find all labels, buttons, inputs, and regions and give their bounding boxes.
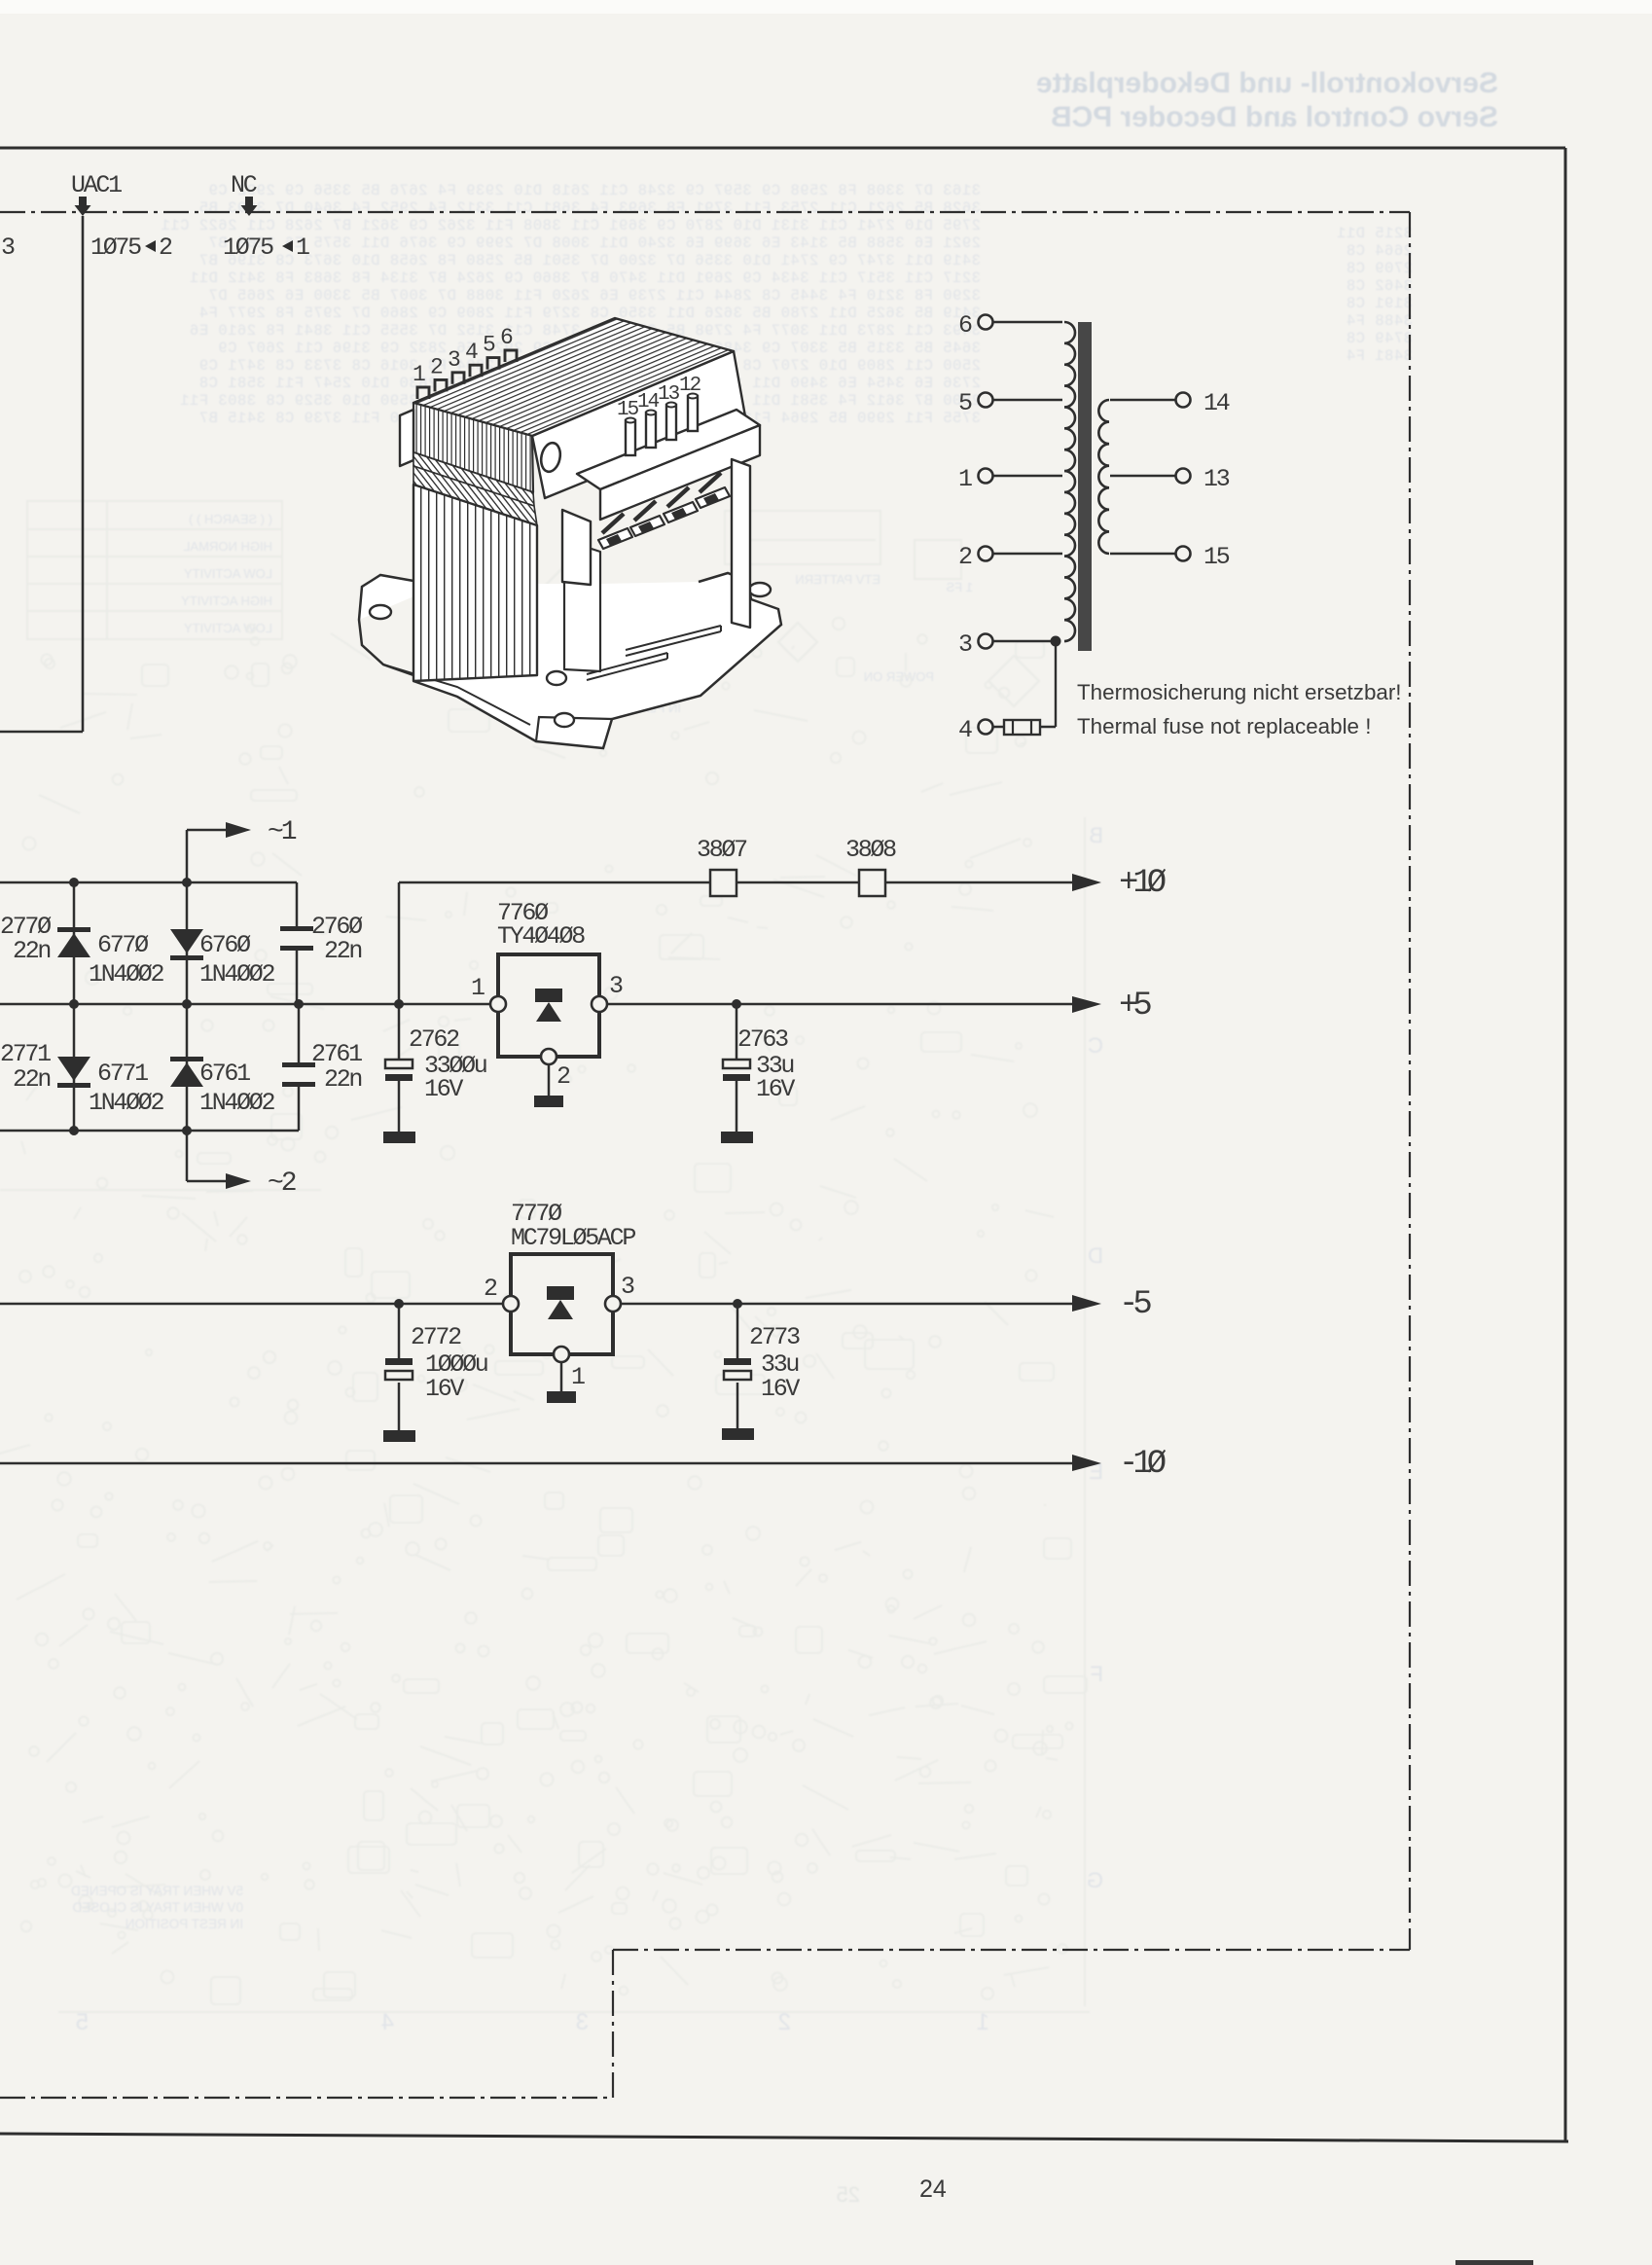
svg-text:~2: ~2 <box>268 1168 296 1199</box>
svg-text:3749 C8: 3749 C8 <box>1346 330 1413 347</box>
svg-text:1N4ØØ2: 1N4ØØ2 <box>199 960 275 989</box>
bracket foot holes <box>547 671 566 685</box>
svg-text:Servo Control and Decoder PCB: Servo Control and Decoder PCB <box>1051 101 1498 133</box>
primary pin 6 <box>979 315 993 330</box>
svg-text:2: 2 <box>159 234 172 262</box>
svg-text:1: 1 <box>413 362 425 387</box>
ghost mirrored test-pattern blocks <box>539 511 1039 706</box>
winding stack front face <box>413 485 537 681</box>
svg-text:( ( SEARCH ) ): ( ( SEARCH ) ) <box>189 512 272 526</box>
AC rail bottom <box>0 1130 299 1132</box>
wire <box>1110 475 1175 477</box>
primary pin 2 <box>979 547 993 561</box>
svg-text:-1Ø: -1Ø <box>1119 1446 1167 1483</box>
capacitor 2772 <box>398 1304 401 1358</box>
secondary winding <box>1098 400 1109 554</box>
svg-text:6771: 6771 <box>97 1060 148 1088</box>
svg-text:6761: 6761 <box>199 1060 250 1088</box>
svg-text:1: 1 <box>958 465 972 493</box>
svg-text:3290 F8 3210 F4 3445 C8 284: 3290 F8 3210 F4 3445 C8 2844 C11 2739 E6… <box>208 287 981 305</box>
ground pin1 <box>560 1362 563 1391</box>
svg-text:2: 2 <box>958 543 972 571</box>
svg-text:1N4ØØ2: 1N4ØØ2 <box>89 1089 164 1117</box>
svg-text:3419 B5 3625 D11 2780 B5 36: 3419 B5 3625 D11 2780 B5 3626 D11 3350 C… <box>198 305 981 322</box>
wire tap down <box>1055 641 1057 727</box>
svg-text:5V WHEN TRAY IS OPENED: 5V WHEN TRAY IS OPENED <box>71 1884 243 1898</box>
diode 6761 <box>186 1004 189 1131</box>
wire <box>993 475 1062 477</box>
svg-text:3163 D7 3308 F8 2598 C9 359: 3163 D7 3308 F8 2598 C9 3597 C9 3248 C11… <box>208 182 981 199</box>
wire <box>1110 553 1175 555</box>
tap junction <box>1051 636 1061 647</box>
svg-text:676Ø: 676Ø <box>199 931 251 959</box>
junction dots top rail <box>69 878 79 887</box>
svg-text:2795 D10 2741 C11 3131 D10: 2795 D10 2741 C11 3131 D10 2870 C9 3691 … <box>161 217 981 234</box>
svg-text:UAC1: UAC1 <box>71 171 122 199</box>
svg-text:16V: 16V <box>756 1075 795 1103</box>
secondary pin 13 <box>1176 469 1191 484</box>
svg-text:2: 2 <box>484 1275 497 1303</box>
svg-text:3: 3 <box>576 2009 589 2035</box>
svg-text:ETV PATTERN: ETV PATTERN <box>795 572 880 587</box>
pin 12 <box>688 396 698 431</box>
svg-text:POWER ON: POWER ON <box>864 669 934 684</box>
svg-text:+1Ø: +1Ø <box>1119 865 1167 902</box>
svg-text:NC: NC <box>231 171 257 199</box>
pin 14 <box>646 413 656 448</box>
secondary pin 14 <box>1176 393 1191 408</box>
-5 rail <box>0 1303 503 1306</box>
svg-text:15: 15 <box>617 399 639 421</box>
svg-text:3: 3 <box>958 630 972 659</box>
branch ~2 <box>186 1131 189 1181</box>
svg-text:F: F <box>1091 1662 1103 1686</box>
ghost mirrored PCB copper pattern <box>0 618 1087 2004</box>
svg-text:IN REST POSITION: IN REST POSITION <box>126 1917 243 1931</box>
svg-text:3481 F4: 3481 F4 <box>1346 347 1413 365</box>
svg-text:14: 14 <box>1203 389 1230 417</box>
svg-text:6: 6 <box>500 325 513 350</box>
bracket hole right <box>749 583 771 596</box>
svg-text:1: 1 <box>471 974 485 1002</box>
arrow +10 <box>1072 874 1101 891</box>
clamp screw rods <box>626 626 721 656</box>
DC rail (+) <box>0 1003 490 1006</box>
-10 rail <box>0 1462 1072 1465</box>
svg-text:3191 C8: 3191 C8 <box>1346 295 1413 312</box>
ground 2762 <box>383 1132 415 1143</box>
svg-text:Thermal fuse not replaceable !: Thermal fuse not replaceable ! <box>1077 714 1371 738</box>
page frame solid border <box>0 147 1565 150</box>
svg-text:25: 25 <box>837 2182 860 2207</box>
svg-text:+5: +5 <box>1119 988 1151 1025</box>
thermal fuse <box>1004 720 1040 735</box>
svg-text:2: 2 <box>557 1062 570 1091</box>
svg-text:22n: 22n <box>13 937 50 965</box>
svg-text:22n: 22n <box>324 937 361 965</box>
pin lug 3 <box>452 373 464 384</box>
svg-text:3462 C8: 3462 C8 <box>1346 277 1413 295</box>
diode 6771 <box>73 1004 76 1131</box>
arrow +5 <box>1072 996 1101 1013</box>
svg-text:16V: 16V <box>761 1375 800 1403</box>
svg-text:G: G <box>1087 1868 1103 1892</box>
lamination zig-zag edge bands <box>413 452 534 506</box>
bracket hole left <box>370 605 391 619</box>
svg-text:677Ø: 677Ø <box>97 931 149 959</box>
svg-text:3628 B5 2621 C11 2753 F11 3: 3628 B5 2621 C11 2753 F11 3791 F8 3693 F… <box>198 199 981 217</box>
svg-text:1: 1 <box>977 2009 989 2035</box>
svg-text:2762: 2762 <box>409 1025 459 1054</box>
pin 13 <box>666 405 676 440</box>
svg-text:C: C <box>1088 1033 1103 1058</box>
svg-text:4: 4 <box>958 716 972 744</box>
svg-text:15: 15 <box>1203 543 1230 571</box>
svg-text:3: 3 <box>448 347 460 373</box>
svg-text:4: 4 <box>465 340 478 365</box>
svg-text:5: 5 <box>958 389 972 417</box>
wire left at bottom of UAC1 box <box>0 731 83 734</box>
connector pin NC <box>241 197 258 216</box>
svg-text:2761: 2761 <box>311 1040 362 1068</box>
svg-text:2771: 2771 <box>0 1040 51 1068</box>
mounting bracket base silhouette <box>359 573 781 748</box>
primary pin 1 <box>979 469 993 484</box>
wire pin4 to fuse <box>993 726 1056 728</box>
svg-text:16V: 16V <box>424 1075 463 1103</box>
svg-text:3215 D11: 3215 D11 <box>1337 225 1413 242</box>
wire <box>993 553 1062 555</box>
primary winding <box>1064 322 1075 641</box>
primary pin 4 <box>979 720 993 735</box>
svg-text:LOW ACTIVITY: LOW ACTIVITY <box>184 566 272 581</box>
svg-text:3217 C11 3517 C11 3434 C9 2: 3217 C11 3517 C11 3434 C9 2691 D11 3470 … <box>189 270 981 287</box>
svg-text:2664 C8: 2664 C8 <box>1346 242 1413 260</box>
svg-text:1 FS: 1 FS <box>946 580 973 594</box>
ghost mirrored mode table <box>27 501 282 639</box>
svg-text:LOW ACTIVITY: LOW ACTIVITY <box>184 621 272 635</box>
core bar <box>1078 322 1092 651</box>
capacitor 2762 <box>398 1004 401 1060</box>
wire pin3 to tap <box>993 640 1056 642</box>
pin lug 6 <box>505 350 517 362</box>
svg-text:3419 D11 3747 C9 2741 D10 3: 3419 D11 3747 C9 2741 D10 3356 D7 3200 D… <box>198 252 981 270</box>
svg-text:38Ø8: 38Ø8 <box>845 836 896 864</box>
ghost mirrored frame grid <box>0 817 1090 2012</box>
svg-text:16V: 16V <box>425 1375 464 1403</box>
branch ~1 <box>186 830 189 882</box>
svg-text:1: 1 <box>571 1363 585 1391</box>
bobbin left column <box>562 510 591 585</box>
svg-text:2772: 2772 <box>411 1323 461 1351</box>
svg-text:TY4Ø4Ø8: TY4Ø4Ø8 <box>497 922 585 951</box>
svg-text:2921 E6 3588 B5 3143 E6 369: 2921 E6 3588 B5 3143 E6 3699 E6 3240 D11… <box>208 234 981 252</box>
arrow -10 <box>1072 1455 1101 1471</box>
svg-text:-5: -5 <box>1119 1286 1151 1323</box>
pin lug 4 <box>470 365 482 377</box>
ground 2772 <box>383 1430 415 1442</box>
dash-dot PCB boundary frame <box>0 211 1410 213</box>
svg-text:HIGH ACTIVITY: HIGH ACTIVITY <box>181 593 272 608</box>
junction dots mid rail <box>69 999 79 1009</box>
primary pin 3 <box>979 634 993 649</box>
diode 6760 <box>186 882 189 1004</box>
svg-text:1N4ØØ2: 1N4ØØ2 <box>89 960 164 989</box>
svg-text:2763: 2763 <box>737 1025 788 1054</box>
svg-text:B: B <box>1089 823 1103 847</box>
resistor 3808 <box>859 870 885 896</box>
svg-text:38Ø7: 38Ø7 <box>697 836 747 864</box>
arrow -5 <box>1072 1295 1101 1312</box>
svg-text:2: 2 <box>778 2009 791 2035</box>
wire <box>993 321 1062 323</box>
svg-text:1Ø75: 1Ø75 <box>90 234 141 262</box>
core right end face <box>532 351 745 498</box>
svg-text:22n: 22n <box>324 1065 361 1094</box>
core side hole <box>539 441 563 473</box>
scan artifact bottom edge <box>1455 2260 1533 2265</box>
svg-text:6: 6 <box>958 311 972 340</box>
wire <box>1110 399 1175 401</box>
capacitor 2773 <box>736 1304 739 1358</box>
bobbin front face <box>600 425 760 520</box>
capacitor 2763 <box>736 1004 738 1060</box>
core centre leg <box>564 540 600 671</box>
transformer core front fin band <box>413 403 533 492</box>
svg-text:2: 2 <box>430 354 443 379</box>
pin lug 2 <box>435 379 447 391</box>
ground 2773 <box>722 1428 754 1440</box>
svg-text:3: 3 <box>609 972 623 1000</box>
capacitor 2760 <box>280 926 313 931</box>
svg-text:1N4ØØ2: 1N4ØØ2 <box>199 1089 275 1117</box>
svg-text:5: 5 <box>76 2009 89 2035</box>
ground 2763 <box>721 1132 753 1143</box>
bobbin top face with pins <box>577 410 760 489</box>
bobbin solder lugs <box>602 514 624 533</box>
connector pin UAC1 <box>75 197 91 216</box>
transformer left clamp tab <box>400 410 413 466</box>
ground pin2 <box>548 1064 551 1096</box>
transformer isometric view <box>359 318 781 748</box>
svg-text:3: 3 <box>621 1273 634 1301</box>
svg-text:1Ø75: 1Ø75 <box>223 234 273 262</box>
wire <box>993 399 1062 401</box>
resistor 3807 <box>710 870 736 896</box>
svg-text:13: 13 <box>658 383 680 406</box>
svg-text:3488 F4: 3488 F4 <box>1346 312 1413 330</box>
bobbin right leg <box>732 459 750 628</box>
svg-text:2773: 2773 <box>749 1323 800 1351</box>
+10 feed <box>399 881 1072 884</box>
svg-text:5: 5 <box>483 333 495 358</box>
pin lug 1 <box>417 387 429 399</box>
svg-text:22n: 22n <box>13 1065 50 1094</box>
AC rail top <box>0 881 297 884</box>
pin lug 5 <box>487 358 499 370</box>
primary pin 5 <box>979 393 993 408</box>
svg-text:~1: ~1 <box>268 817 297 847</box>
diode 6770 <box>73 882 76 1004</box>
svg-text:0V WHEN TRAY IS CLOSED: 0V WHEN TRAY IS CLOSED <box>72 1900 243 1915</box>
capacitor 2761 <box>298 1004 301 1063</box>
pin 15 <box>626 420 635 455</box>
wire to cap 2760 <box>296 882 299 928</box>
svg-text:D: D <box>1088 1243 1103 1268</box>
transformer core top face (laminations) <box>413 318 734 436</box>
svg-text:24: 24 <box>919 2175 947 2203</box>
svg-text:HIGH NORMAL: HIGH NORMAL <box>183 539 272 554</box>
svg-text:Servokontroll- und Dekoderplat: Servokontroll- und Dekoderplatte <box>1036 67 1498 99</box>
wire from UAC1 pin down <box>82 216 85 732</box>
svg-text:2709 C8: 2709 C8 <box>1346 260 1413 277</box>
secondary pin 15 <box>1176 547 1191 561</box>
svg-text:14: 14 <box>637 391 660 413</box>
svg-text:12: 12 <box>679 375 701 397</box>
svg-text:Thermosicherung nicht ersetzba: Thermosicherung nicht ersetzbar! <box>1077 680 1402 704</box>
svg-text:1: 1 <box>296 234 309 262</box>
svg-text:3: 3 <box>1 234 15 262</box>
svg-text:MC79LØ5ACP: MC79LØ5ACP <box>511 1224 635 1252</box>
svg-text:13: 13 <box>1203 465 1230 493</box>
svg-text:4: 4 <box>381 2009 394 2035</box>
